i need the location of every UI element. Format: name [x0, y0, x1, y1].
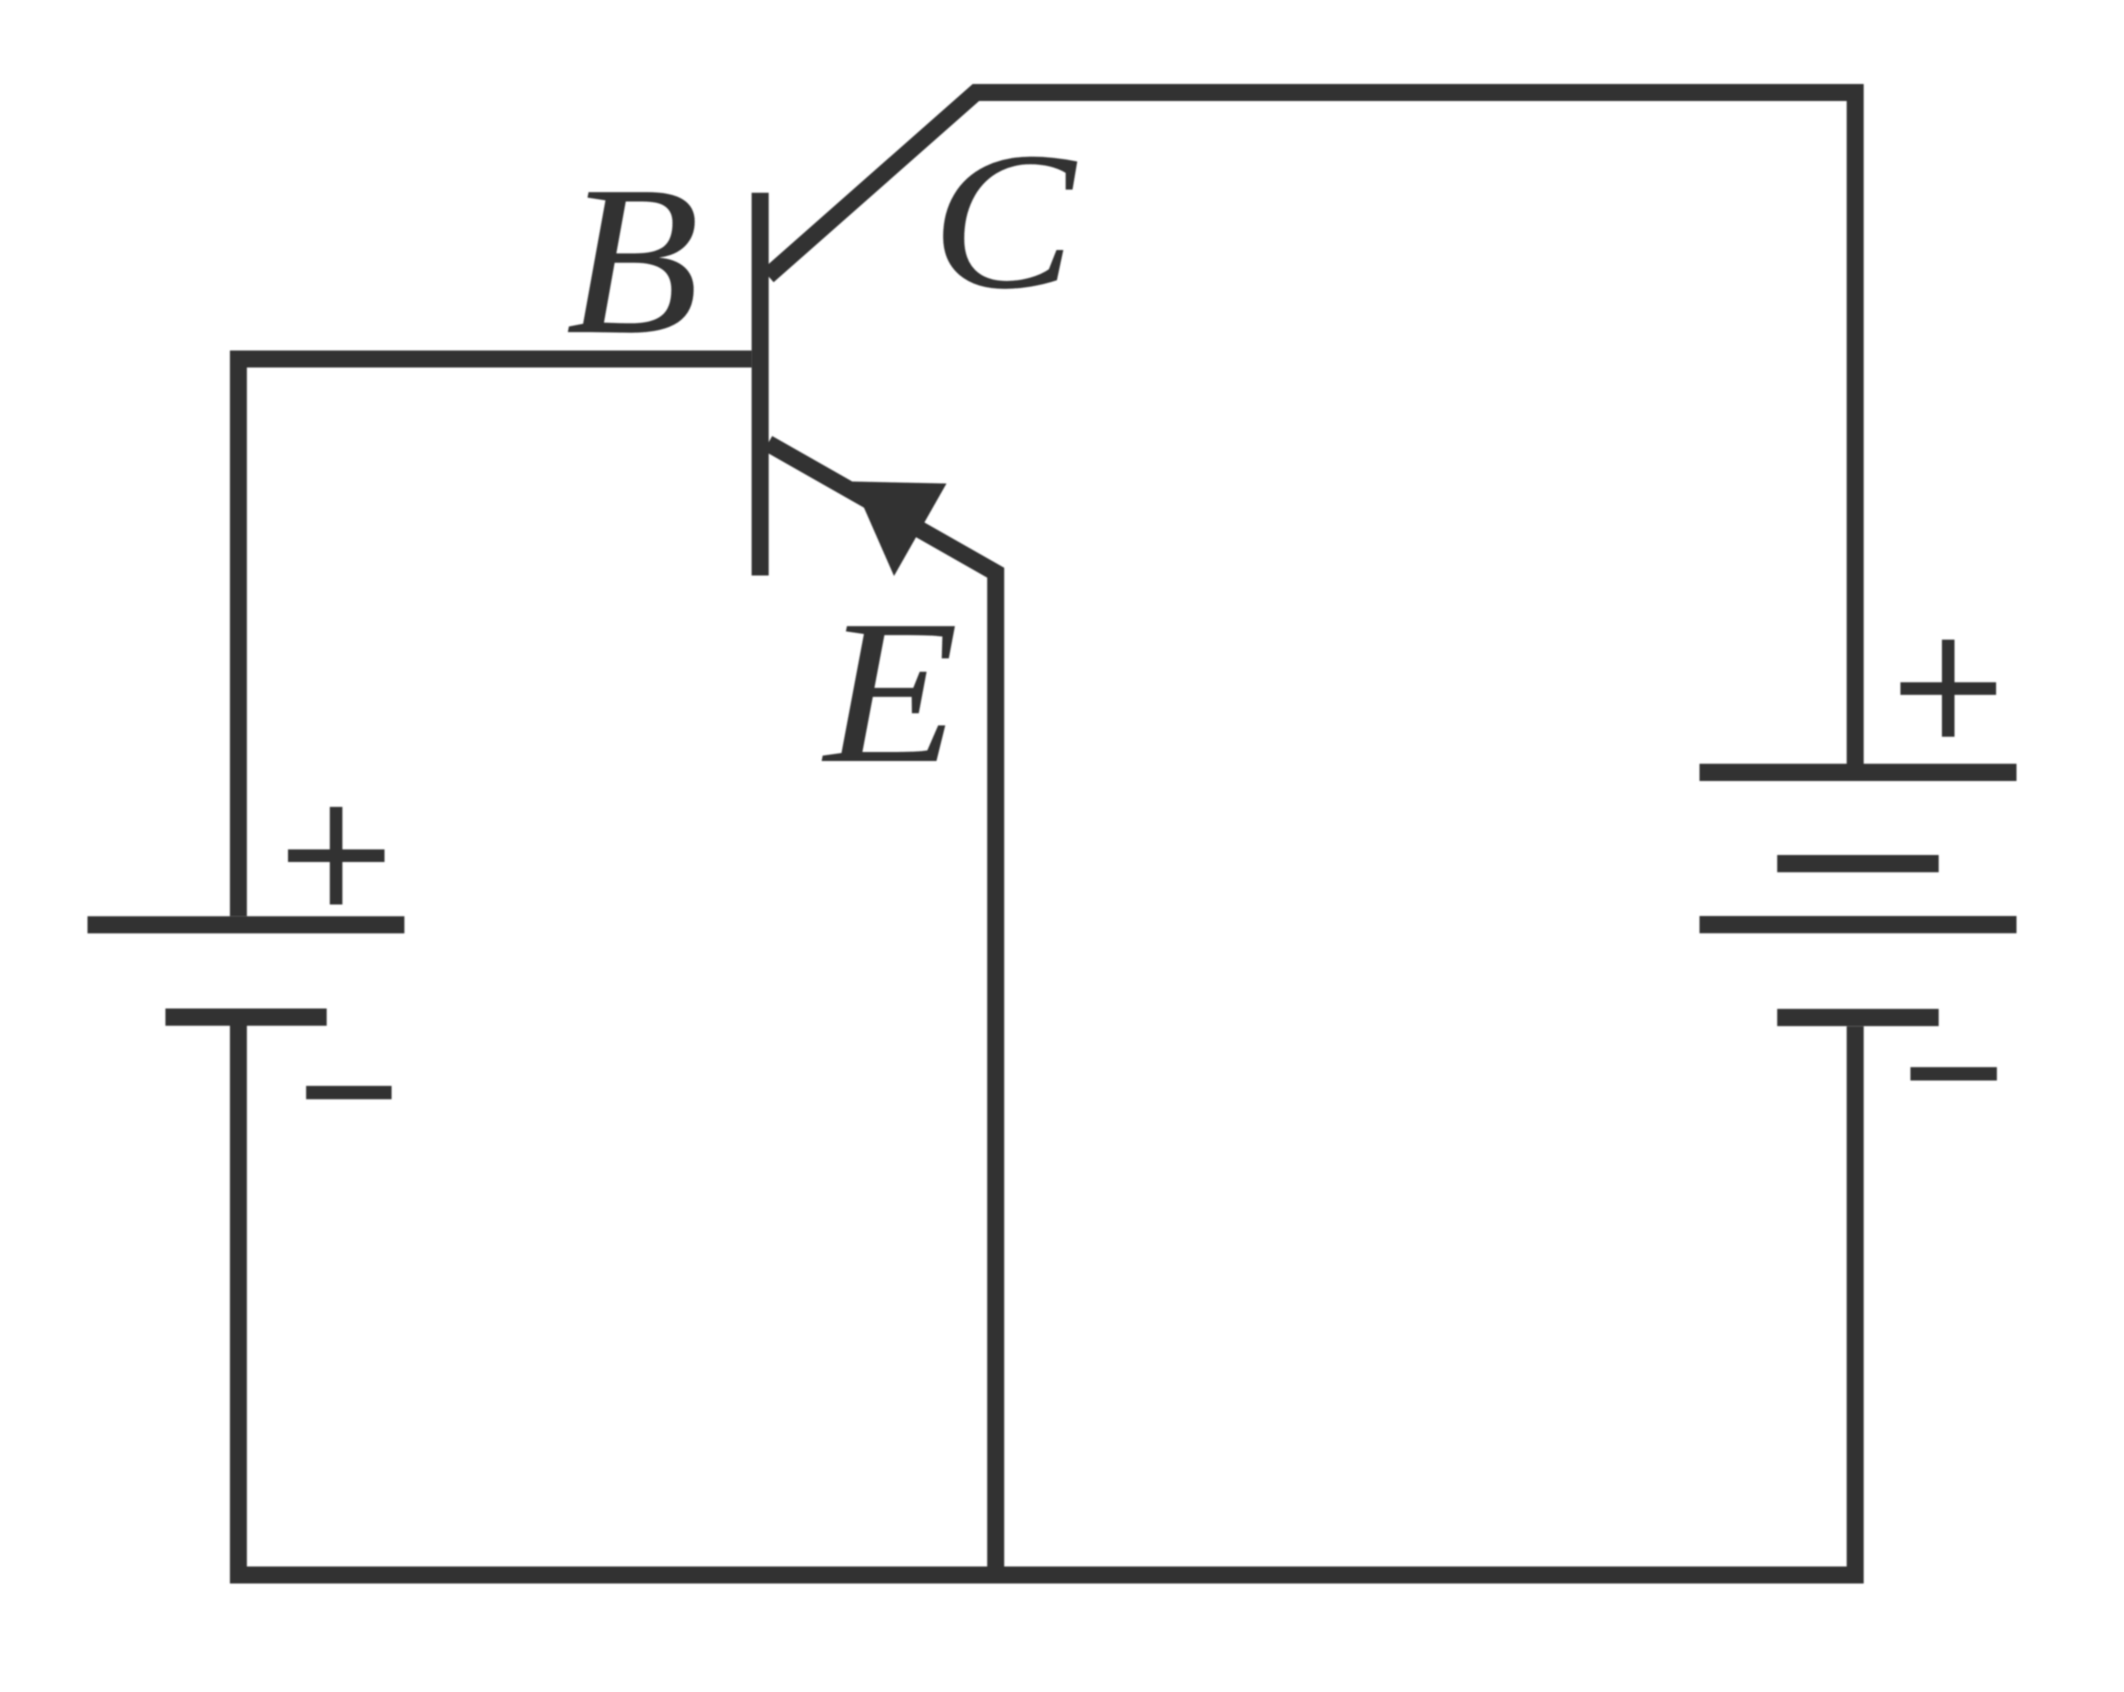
plus sign of V2 [1900, 640, 1996, 737]
battery V2 negative plate cell1 (short) [1777, 855, 1939, 872]
battery V2 positive plate cell1 (long) [1700, 764, 2017, 781]
svg-text:C: C [931, 112, 1077, 330]
battery V2 negative plate cell2 (short) [1777, 1009, 1939, 1026]
plus sign of V1 [288, 807, 385, 905]
minus sign of V1 [306, 1086, 392, 1099]
transistor Q1 emitter arrowhead (PNP, pointing to base) [853, 482, 947, 577]
svg-text:E: E [821, 578, 958, 806]
battery V2 positive plate cell2 (long) [1700, 916, 2017, 933]
minus sign of V2 [1910, 1067, 1997, 1080]
svg-text:B: B [566, 141, 700, 378]
battery V1 negative plate (short) [165, 1008, 326, 1025]
transistor Q1 emitter wire [768, 443, 996, 1583]
transistor Q1 base bar [752, 193, 769, 576]
battery V1 positive plate (long) [88, 916, 405, 933]
wire bottom (V1 minus to V2 minus, with emitter junction) [238, 1026, 1855, 1576]
wire base (B node to left battery) [238, 359, 751, 916]
wire collector to V2 plus (top) [768, 93, 1855, 765]
